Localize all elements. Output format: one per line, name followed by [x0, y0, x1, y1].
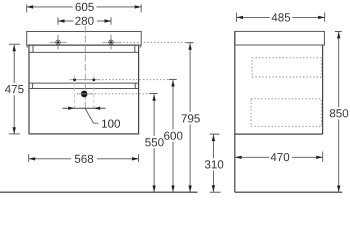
fixing dots crosshair [69, 79, 98, 81]
dimension 475 top arrow [13, 45, 16, 52]
dimension 485 label [272, 13, 291, 21]
dimension 280 right arrow [105, 19, 112, 22]
dimension 795 top arrow [188, 43, 191, 50]
dotted projection from fixing dots to 600 extension [99, 79, 169, 81]
band left stub [32, 83, 34, 88]
dimension 550 bottom arrow [152, 186, 155, 193]
side view cabinet right edge [322, 45, 324, 134]
dimension 605 line [27, 6, 73, 8]
dimension 470 right arrow [316, 156, 323, 159]
dimension 280 left tick [57, 17, 59, 25]
dimension 568 left tick [28, 154, 30, 162]
dimension 485 right tick [324, 13, 326, 22]
dimension 568 right tick [138, 154, 140, 162]
dimension 850 line [338, 32, 340, 107]
dimension 470 label [271, 153, 290, 161]
dimension 600 label [164, 132, 182, 140]
left faucet hole [56, 40, 60, 44]
vertical centerline of front view [84, 26, 86, 111]
dimension 795 label [182, 114, 200, 122]
dimension 605 right tick [140, 4, 142, 12]
front top rail left stub [32, 45, 34, 52]
side view front edge extended to floor [234, 31, 236, 192]
dimension 310 line [212, 135, 214, 159]
dimension 475 line [13, 45, 15, 83]
dimension 310 bottom tick [210, 191, 221, 193]
drain crosshair [77, 93, 92, 95]
dimension 550 top arrow [152, 94, 155, 101]
dimension 600 top tick [169, 78, 177, 80]
dashed extension line through right fixing dot [93, 75, 95, 108]
dimension 795 top tick [186, 42, 193, 44]
dimension 475 bottom tick [9, 133, 20, 135]
side view upper drawer hidden outline [252, 58, 321, 77]
dimension 475 label [5, 85, 24, 93]
right fixing dot [92, 78, 95, 81]
front cabinet top rail line [29, 51, 139, 53]
dimension 310 top arrow [212, 135, 215, 142]
dimension 600 top arrow [171, 80, 174, 87]
left fixing dot [73, 78, 76, 81]
slab right side stub [140, 45, 142, 48]
dimension 568 label [75, 155, 93, 163]
dimension 600 bottom arrow [171, 186, 174, 193]
dimension 475 bottom arrow [13, 127, 16, 134]
dashed extension line through left fixing dot [74, 75, 76, 108]
dimension 485 line [237, 16, 270, 18]
dimension 550 line [153, 94, 155, 136]
dimension 605 left arrow [27, 5, 34, 8]
floor line under side view [235, 191, 342, 193]
slab left side stub [26, 45, 28, 48]
dotted projection from drain to 550 extension [92, 93, 150, 95]
side view cabinet bottom [235, 133, 323, 135]
dimension 310 label [205, 160, 223, 168]
side view countertop slab [235, 31, 325, 45]
dimension 485 left arrow [237, 16, 244, 19]
dimension 605 label [76, 3, 94, 11]
dimension 100 left arrow [68, 107, 74, 110]
dimension 100 label [102, 120, 120, 128]
dimension 568 right arrow [132, 157, 139, 160]
dimension 475 top tick [9, 43, 20, 45]
front drawer gap band upper line [29, 82, 139, 84]
dimension 550 label [145, 138, 163, 146]
dimension 485 right arrow [318, 16, 325, 19]
dimension 280 right tick [110, 17, 112, 25]
dimension 605 left tick [26, 4, 28, 12]
dimension 600 line [172, 80, 174, 129]
dimension 470 left arrow [235, 156, 242, 159]
band right stub [134, 83, 136, 88]
floor line under front view [0, 191, 198, 193]
front drawer gap band lower line [29, 88, 139, 90]
right faucet hole [109, 40, 113, 44]
dimension 605 right arrow [135, 5, 142, 8]
dimension 280 left arrow [58, 19, 65, 22]
side view lower drawer hidden outline [251, 99, 321, 127]
dotted projection line from faucet level to 795 extension [120, 41, 186, 43]
front view countertop slab [27, 32, 142, 46]
dimension 850 bottom arrow [337, 186, 340, 193]
dimension 280 label [75, 17, 93, 25]
left faucet hole crosshair [50, 41, 68, 43]
dimension 550 top tick [150, 93, 158, 95]
dimension 100 line [63, 107, 106, 109]
front view cabinet carcass [29, 45, 139, 134]
dimension 485 left tick [236, 13, 238, 22]
dimension 568 line [29, 158, 71, 160]
dimension 470 right tick [322, 152, 324, 163]
dimension 850 top tick [335, 31, 342, 33]
dimension 310 bottom arrow [212, 185, 215, 192]
dimension 470 line [235, 156, 269, 158]
drain hole [81, 91, 88, 98]
dimension 568 left arrow [29, 157, 36, 160]
dimension 795 line [189, 43, 191, 112]
dimension 100 right arrow [94, 107, 100, 110]
dimension 850 label [330, 109, 348, 117]
dimension 795 bottom arrow [188, 186, 191, 193]
dimension 850 top arrow [337, 32, 340, 39]
dimension 310 top tick [210, 133, 220, 135]
right faucet hole crosshair [103, 41, 121, 43]
dimension 100 leader [85, 109, 98, 124]
front top rail right stub [134, 45, 136, 52]
dimension 280 line [58, 20, 73, 22]
